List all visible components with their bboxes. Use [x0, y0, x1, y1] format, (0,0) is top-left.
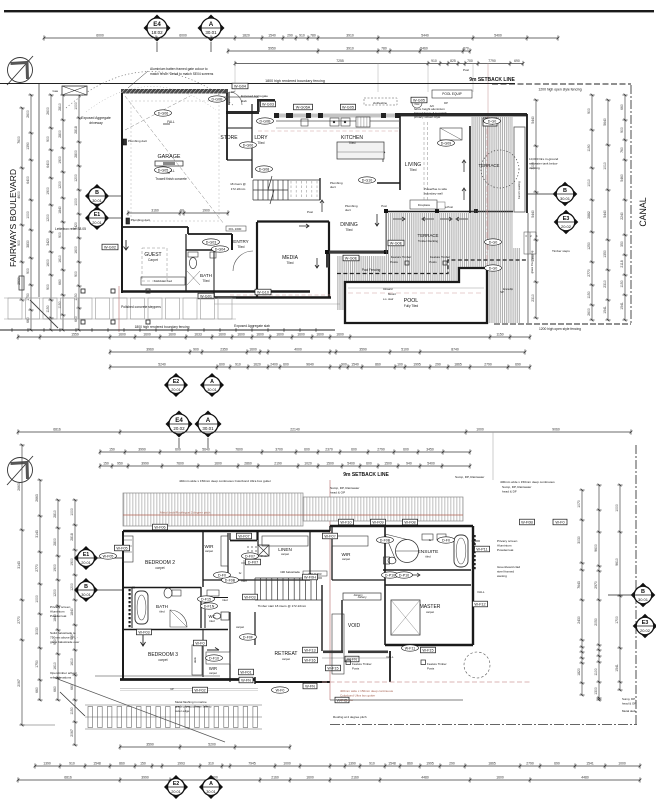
leader line	[128, 71, 148, 88]
svg-text:600: 600	[366, 461, 372, 465]
glass pool fence line	[527, 213, 529, 323]
svg-text:tiled: tiled	[222, 598, 228, 602]
svg-text:Tiled: Tiled	[345, 228, 352, 232]
svg-text:6400: 6400	[26, 176, 30, 184]
svg-text:W-F11: W-F11	[405, 647, 415, 651]
svg-text:2050: 2050	[594, 618, 598, 626]
label W-F03	[243, 594, 258, 600]
label W-F16	[303, 657, 318, 663]
polished concrete steppers	[4, 298, 236, 319]
svg-text:W-G02: W-G02	[104, 246, 116, 250]
svg-text:1600: 1600	[336, 332, 344, 336]
section marker A	[195, 411, 222, 438]
svg-text:a.Post: a.Post	[445, 205, 453, 209]
svg-text:2882: 2882	[587, 211, 591, 219]
svg-text:FALL: FALL	[386, 655, 393, 659]
svg-text:D-F15: D-F15	[201, 598, 211, 602]
svg-text:1390: 1390	[43, 761, 51, 765]
svg-text:20.01: 20.01	[92, 221, 102, 225]
svg-text:Tiled: Tiled	[409, 168, 416, 172]
property boundary right	[630, 85, 632, 325]
svg-text:1900: 1900	[70, 558, 74, 566]
svg-text:100: 100	[397, 362, 403, 366]
svg-text:POOL EQUIP: POOL EQUIP	[442, 92, 462, 96]
svg-text:1548: 1548	[388, 761, 396, 765]
svg-text:4480: 4480	[581, 775, 589, 779]
svg-text:E4: E4	[153, 21, 161, 28]
svg-text:900: 900	[74, 271, 78, 277]
svg-text:1600: 1600	[74, 246, 78, 254]
svg-text:1390: 1390	[348, 761, 356, 765]
svg-text:1541: 1541	[620, 302, 624, 310]
svg-text:3590: 3590	[359, 347, 367, 351]
dimension line	[19, 444, 24, 727]
setback line through terrace	[486, 117, 488, 282]
label W-F06	[153, 524, 168, 530]
svg-text:600: 600	[351, 447, 357, 451]
svg-text:1300: 1300	[594, 687, 598, 695]
svg-text:1000: 1000	[35, 595, 39, 603]
label W-G02	[102, 244, 118, 250]
svg-text:W-G03: W-G03	[262, 103, 274, 107]
label W-F15	[421, 647, 436, 653]
svg-text:2810: 2810	[58, 103, 62, 111]
svg-text:B: B	[84, 584, 88, 590]
svg-text:Plumbing duct: Plumbing duct	[128, 139, 147, 143]
svg-text:900: 900	[17, 240, 21, 246]
svg-text:1540: 1540	[351, 362, 359, 366]
svg-text:carpet: carpet	[281, 552, 289, 556]
svg-text:head & OF: head & OF	[622, 702, 636, 706]
svg-text:1000: 1000	[618, 761, 626, 765]
dimension line	[76, 94, 81, 332]
svg-text:860: 860	[375, 362, 381, 366]
svg-text:400mm wide x 150mm deep contin: 400mm wide x 150mm deep continuous	[340, 689, 394, 693]
svg-text:9600: 9600	[594, 544, 598, 552]
svg-text:D-F0B: D-F0B	[225, 579, 236, 583]
label W-G01	[198, 293, 214, 299]
svg-text:600: 600	[304, 447, 310, 451]
label W-F0B	[520, 519, 535, 525]
north point symbol	[7, 56, 33, 85]
svg-text:1995: 1995	[413, 362, 421, 366]
setback fence line	[492, 83, 631, 85]
svg-text:FALL: FALL	[167, 120, 175, 124]
svg-text:W-F12: W-F12	[474, 603, 485, 607]
svg-text:Tiled: Tiled	[237, 245, 244, 249]
dimension line	[60, 94, 65, 332]
retreat south wall	[255, 681, 330, 683]
leader	[95, 675, 220, 677]
svg-text:2430: 2430	[577, 616, 581, 624]
svg-text:5400: 5400	[427, 461, 435, 465]
section marker E2	[164, 775, 188, 799]
svg-text:W-F15: W-F15	[327, 667, 338, 671]
svg-text:690: 690	[554, 761, 560, 765]
svg-text:1633: 1633	[194, 332, 202, 336]
svg-text:6816: 6816	[64, 775, 72, 779]
label W-F01	[239, 669, 254, 675]
svg-text:UP: UP	[170, 687, 174, 691]
wc toilets	[384, 557, 390, 564]
svg-text:8740: 8740	[451, 347, 459, 351]
svg-text:W-G0E: W-G0E	[390, 242, 403, 246]
svg-text:DP: DP	[231, 90, 235, 94]
svg-text:3960: 3960	[146, 347, 154, 351]
wardrobe ticks bed2	[123, 536, 133, 562]
svg-text:Aluminium batten framed gate c: Aluminium batten framed gate colour to	[150, 67, 208, 71]
svg-text:carpet: carpet	[205, 549, 213, 553]
svg-text:9m SETBACK LINE: 9m SETBACK LINE	[469, 77, 515, 83]
svg-text:2790: 2790	[484, 362, 492, 366]
svg-text:20.01: 20.01	[81, 561, 91, 565]
svg-text:3143: 3143	[35, 530, 39, 538]
label W-FN	[239, 677, 253, 683]
north wall notch	[230, 540, 257, 542]
svg-text:B: B	[95, 190, 99, 196]
section marker A	[200, 373, 224, 397]
svg-text:1610: 1610	[53, 662, 57, 670]
svg-text:5100: 5100	[401, 347, 409, 351]
svg-text:4000: 4000	[294, 347, 302, 351]
svg-text:Polished concrete steppers: Polished concrete steppers	[121, 305, 161, 309]
svg-text:6400: 6400	[46, 160, 50, 168]
svg-text:1350: 1350	[531, 254, 535, 262]
label W-G0E	[343, 255, 359, 261]
label D-G10	[359, 177, 376, 183]
roof gutter hatched band right	[303, 497, 463, 521]
north wall ff left	[123, 530, 330, 533]
rainwater tank dashed circle	[481, 150, 519, 188]
svg-text:600: 600	[403, 447, 409, 451]
svg-text:match fence. Detail to match S: match fence. Detail to match SE04 screen…	[150, 72, 214, 76]
svg-text:Mount: Mount	[388, 292, 396, 296]
svg-text:172.22mm: 172.22mm	[231, 187, 246, 191]
svg-text:290: 290	[449, 761, 455, 765]
courtyard wall	[226, 111, 259, 114]
label D-F07	[246, 559, 261, 565]
svg-text:carpet: carpet	[155, 566, 164, 570]
pool fencing dashed	[337, 260, 528, 274]
store/ldry partition	[251, 104, 253, 178]
svg-text:1500: 1500	[326, 461, 334, 465]
label W-F15	[326, 665, 341, 671]
svg-text:W-F10: W-F10	[340, 521, 351, 525]
section marker E4	[144, 15, 171, 42]
svg-text:1390: 1390	[26, 142, 30, 150]
svg-text:870: 870	[463, 46, 469, 50]
svg-text:fw: fw	[239, 572, 242, 575]
south fence right	[494, 323, 631, 325]
label D-G08	[256, 166, 273, 172]
section marker E3	[633, 614, 656, 639]
svg-text:B: B	[563, 188, 567, 194]
svg-text:2970: 2970	[594, 581, 598, 589]
label D-F0B	[377, 537, 394, 543]
section marker E4	[166, 411, 193, 438]
label D-G0	[484, 118, 501, 124]
svg-text:Tiled: Tiled	[257, 141, 264, 145]
svg-text:W-G06A: W-G06A	[296, 106, 311, 110]
setback line vertical	[329, 480, 331, 700]
svg-text:900: 900	[58, 232, 62, 238]
svg-text:E4: E4	[175, 417, 183, 424]
svg-text:1000: 1000	[74, 198, 78, 206]
svg-text:Colorbond Ultra box gutter: Colorbond Ultra box gutter	[340, 694, 375, 698]
label W-G05	[341, 104, 356, 110]
dimension line	[99, 449, 472, 454]
bath walls	[186, 249, 216, 251]
svg-text:910: 910	[369, 761, 375, 765]
svg-text:350: 350	[620, 241, 624, 247]
label D-P10	[396, 572, 413, 578]
svg-text:5640: 5640	[202, 447, 210, 451]
svg-text:4600: 4600	[17, 191, 21, 199]
svg-text:Greenboard clad: Greenboard clad	[497, 565, 520, 569]
svg-text:W-F13: W-F13	[304, 649, 315, 653]
privacy screen dots column	[474, 535, 476, 569]
label W-P11	[475, 546, 490, 552]
dimension line	[127, 210, 230, 215]
svg-text:1500: 1500	[384, 461, 392, 465]
svg-text:Pool Fencing: Pool Fencing	[362, 268, 381, 272]
svg-text:Tiled: Tiled	[348, 141, 355, 145]
svg-text:ENTRY: ENTRY	[233, 239, 249, 244]
svg-text:9m SETBACK LINE: 9m SETBACK LINE	[343, 472, 389, 478]
svg-text:3030: 3030	[577, 536, 581, 544]
svg-text:1800 high rendered boundary fe: 1800 high rendered boundary fencing	[135, 325, 190, 329]
svg-text:refer elevations: refer elevations	[50, 676, 72, 680]
master bed	[391, 600, 420, 635]
svg-text:1100: 1100	[594, 668, 598, 675]
svg-text:5240: 5240	[158, 362, 166, 366]
svg-text:1020: 1020	[304, 461, 312, 465]
svg-text:1900: 1900	[53, 564, 57, 572]
svg-text:3910: 3910	[346, 46, 354, 50]
section marker E2	[164, 373, 188, 397]
svg-text:Powerflue to side: Powerflue to side	[424, 187, 447, 191]
svg-text:D-G05: D-G05	[158, 169, 169, 173]
svg-text:1200: 1200	[58, 181, 62, 189]
svg-text:5440: 5440	[531, 210, 535, 218]
svg-text:2310: 2310	[531, 294, 535, 302]
svg-text:2810: 2810	[53, 510, 57, 518]
stair break line	[268, 176, 274, 204]
svg-text:FALL: FALL	[477, 590, 484, 594]
svg-text:duct: duct	[345, 208, 351, 212]
dimension line	[19, 107, 24, 302]
svg-text:D-G04: D-G04	[215, 248, 226, 252]
svg-text:2350: 2350	[220, 347, 228, 351]
letterbox	[19, 276, 24, 290]
grid drop line	[472, 64, 474, 93]
svg-text:1000: 1000	[74, 102, 78, 110]
svg-text:1865: 1865	[454, 362, 462, 366]
svg-text:Posts: Posts	[352, 667, 360, 671]
svg-text:BATH: BATH	[156, 604, 168, 609]
label D-F1N	[201, 603, 218, 609]
svg-text:Timber stair 18 risers @ 172.2: Timber stair 18 risers @ 172.22mm	[258, 604, 307, 608]
svg-text:190 balustrade: 190 balustrade	[280, 570, 300, 574]
svg-text:D-G06: D-G06	[243, 144, 254, 148]
svg-text:1000: 1000	[476, 427, 484, 431]
svg-text:D-F10: D-F10	[209, 657, 219, 661]
svg-text:2663: 2663	[35, 494, 39, 502]
entry/media west wall	[231, 234, 233, 250]
svg-text:Joinery: Joinery	[353, 593, 363, 597]
svg-text:660: 660	[26, 317, 30, 323]
svg-text:D-F07: D-F07	[245, 555, 255, 559]
dimension line	[17, 429, 633, 434]
svg-text:driveway: driveway	[89, 121, 103, 125]
label W-F02	[193, 687, 208, 693]
svg-text:660: 660	[53, 686, 57, 692]
svg-text:1200 high open style fencing: 1200 high open style fencing	[538, 88, 581, 92]
east wall living/dining	[399, 116, 401, 190]
svg-text:Post: Post	[463, 68, 469, 72]
svg-text:1600: 1600	[297, 332, 305, 336]
svg-text:1000: 1000	[70, 508, 74, 516]
svg-text:Sump, DP,: Sump, DP,	[622, 697, 636, 701]
svg-text:3830: 3830	[26, 240, 30, 248]
svg-text:1541: 1541	[603, 306, 607, 314]
svg-text:W-G04: W-G04	[234, 85, 246, 89]
svg-text:Aluminium: Aluminium	[50, 610, 65, 614]
svg-text:150: 150	[103, 461, 109, 465]
label D-F0F	[240, 634, 257, 640]
svg-text:1800 high rendered boundary fe: 1800 high rendered boundary fencing	[265, 79, 325, 83]
svg-text:D-F0: D-F0	[218, 574, 226, 578]
svg-text:1840: 1840	[70, 608, 74, 616]
section marker B	[74, 578, 98, 602]
svg-text:1200: 1200	[74, 174, 78, 182]
label W-F0H	[303, 574, 318, 580]
svg-text:1200 high open style fencing: 1200 high open style fencing	[539, 327, 581, 331]
svg-text:E3: E3	[563, 216, 570, 222]
driveway gate arc	[66, 71, 234, 108]
svg-text:3160: 3160	[151, 208, 159, 212]
stair first floor	[255, 578, 322, 600]
svg-text:30.01: 30.01	[92, 199, 102, 203]
svg-text:1600: 1600	[46, 259, 50, 267]
bath shower diag	[187, 271, 200, 285]
label W-F09	[371, 519, 386, 525]
svg-text:GARAGE: GARAGE	[157, 154, 180, 160]
svg-text:D-G0: D-G0	[488, 120, 497, 124]
svg-text:slab: slab	[241, 99, 247, 103]
label W-F0?	[323, 533, 338, 539]
label W-G03	[261, 101, 276, 107]
svg-text:20.02: 20.02	[561, 224, 572, 229]
interior partitions ff	[202, 531, 204, 587]
svg-text:290: 290	[435, 362, 441, 366]
svg-text:D-F0F: D-F0F	[243, 636, 254, 640]
svg-text:2067: 2067	[70, 729, 74, 737]
section marker B	[553, 182, 578, 207]
svg-text:1600: 1600	[218, 332, 226, 336]
svg-text:duct: duct	[330, 185, 336, 189]
ensuite shower circle	[396, 540, 419, 563]
svg-text:5460: 5460	[420, 46, 428, 50]
section marker E1	[74, 546, 98, 570]
svg-text:1540: 1540	[268, 33, 276, 37]
bench seating strip	[514, 127, 525, 212]
svg-text:W-F0: W-F0	[276, 689, 285, 693]
label W-G0E	[388, 240, 404, 246]
svg-text:1820: 1820	[242, 33, 250, 37]
south wall	[122, 290, 310, 293]
label W-F12	[473, 601, 488, 607]
label D-F07	[242, 553, 259, 559]
svg-text:2790: 2790	[526, 761, 534, 765]
svg-text:900: 900	[46, 284, 50, 290]
living arrows	[462, 160, 466, 172]
deck direction arrows	[375, 214, 468, 226]
svg-text:1600: 1600	[316, 332, 324, 336]
svg-text:3143: 3143	[17, 561, 21, 569]
label W-F05	[115, 545, 130, 551]
label W-F05	[100, 553, 117, 559]
svg-text:1010: 1010	[587, 179, 591, 187]
svg-text:1070: 1070	[577, 500, 581, 508]
svg-text:1000: 1000	[283, 761, 291, 765]
svg-text:Powdercoat: Powdercoat	[50, 614, 66, 618]
svg-text:780: 780	[381, 46, 387, 50]
ensuite bath	[454, 535, 468, 567]
svg-text:A/C: A/C	[430, 104, 435, 108]
awning red dashed	[322, 681, 530, 683]
roof edge line	[330, 699, 463, 701]
svg-text:7790: 7790	[488, 59, 496, 63]
svg-text:D-P10: D-P10	[399, 574, 409, 578]
svg-text:W-FN: W-FN	[241, 679, 251, 683]
svg-text:1190: 1190	[587, 144, 591, 151]
svg-text:1600: 1600	[256, 332, 264, 336]
svg-text:3990: 3990	[141, 775, 149, 779]
label D-F0	[438, 537, 455, 543]
svg-text:W-F03: W-F03	[138, 631, 149, 635]
svg-text:carpet: carpet	[158, 658, 167, 662]
label D-G09	[438, 140, 455, 146]
svg-text:1700: 1700	[615, 616, 619, 624]
svg-text:5400: 5400	[347, 461, 355, 465]
roof pitch line red	[123, 514, 463, 516]
svg-text:BATH: BATH	[200, 273, 212, 278]
garage gate top wall	[121, 89, 228, 94]
svg-text:W-G05: W-G05	[342, 106, 354, 110]
svg-text:Feature Timber: Feature Timber	[430, 255, 450, 259]
svg-text:660: 660	[620, 104, 624, 110]
svg-text:W-F16: W-F16	[304, 659, 315, 663]
svg-text:30.01: 30.01	[202, 426, 214, 431]
fold down bed	[141, 277, 185, 285]
svg-text:1820: 1820	[577, 668, 581, 676]
svg-text:desk: desk	[193, 656, 197, 663]
svg-text:1541: 1541	[586, 761, 594, 765]
svg-text:1010: 1010	[603, 162, 607, 170]
svg-text:Exposed Aggregate: Exposed Aggregate	[81, 116, 111, 120]
svg-text:825: 825	[450, 59, 456, 63]
north point symbol	[7, 456, 33, 485]
media room walls	[256, 222, 258, 297]
sheet top rule	[4, 10, 654, 12]
svg-text:600: 600	[283, 362, 289, 366]
dimension line	[227, 48, 472, 53]
svg-text:Metal flashing in marine: Metal flashing in marine	[175, 700, 207, 704]
label D-G0	[485, 265, 502, 271]
dimension line	[533, 99, 538, 320]
label W-F10	[339, 519, 354, 525]
